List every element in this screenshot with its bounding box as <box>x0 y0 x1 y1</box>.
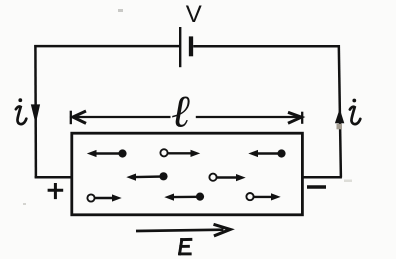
dimension line right segment <box>196 116 301 118</box>
hole row1 mid: circle <box>160 149 167 156</box>
wire right to box <box>302 176 342 179</box>
dimension tick left <box>70 111 72 125</box>
electron row1 left: arrow <box>96 152 123 154</box>
arrow i down (left wire) <box>31 104 40 124</box>
dimension arrowhead left <box>73 111 86 123</box>
wire left vertical <box>34 45 37 178</box>
svg-text:V: V <box>186 1 202 28</box>
battery long plate <box>179 27 181 67</box>
label minus (right terminal) <box>307 185 326 189</box>
label i left <box>16 98 26 124</box>
electron row1 left: dot <box>118 149 126 157</box>
electron row2: arrow <box>135 175 164 178</box>
wire top-left horizontal <box>34 45 180 48</box>
hole row3 left: arrow <box>95 197 113 199</box>
battery short thick plate <box>189 36 193 56</box>
electron row1 right: dot <box>277 149 285 157</box>
wire top-right horizontal <box>193 45 340 48</box>
electron row1 right: arrow <box>257 152 282 154</box>
faint speck near V <box>118 9 123 12</box>
hole row3 right: circle <box>246 193 253 200</box>
hole row3 right: arrow <box>254 196 272 198</box>
E field arrowhead <box>214 224 231 236</box>
label E <box>180 239 191 254</box>
svg-text:ℓ: ℓ <box>171 87 190 137</box>
wire left to box <box>35 176 73 179</box>
arrow i up (right wire) <box>335 109 344 124</box>
electron row3: dot <box>196 193 204 201</box>
hole row3 left: circle <box>87 194 94 201</box>
label i right <box>350 99 360 125</box>
label plus (left terminal) <box>48 183 64 199</box>
conductor box <box>72 133 303 215</box>
faint smudge right of wire joint <box>344 180 352 183</box>
E field arrow shaft <box>136 230 224 231</box>
dimension tick right <box>301 112 303 124</box>
wire right vertical <box>339 45 341 177</box>
dimension arrowhead right <box>288 112 301 123</box>
faint speck lower left <box>23 203 26 205</box>
electron row2: dot <box>159 172 167 180</box>
electron row3: arrow <box>173 196 200 199</box>
hole row2: arrow <box>217 176 237 178</box>
dimension line left segment <box>73 116 171 118</box>
faint smudge under up-arrow <box>337 124 343 130</box>
hole row2: circle <box>209 174 216 181</box>
hole row1 mid: arrow <box>168 152 191 154</box>
